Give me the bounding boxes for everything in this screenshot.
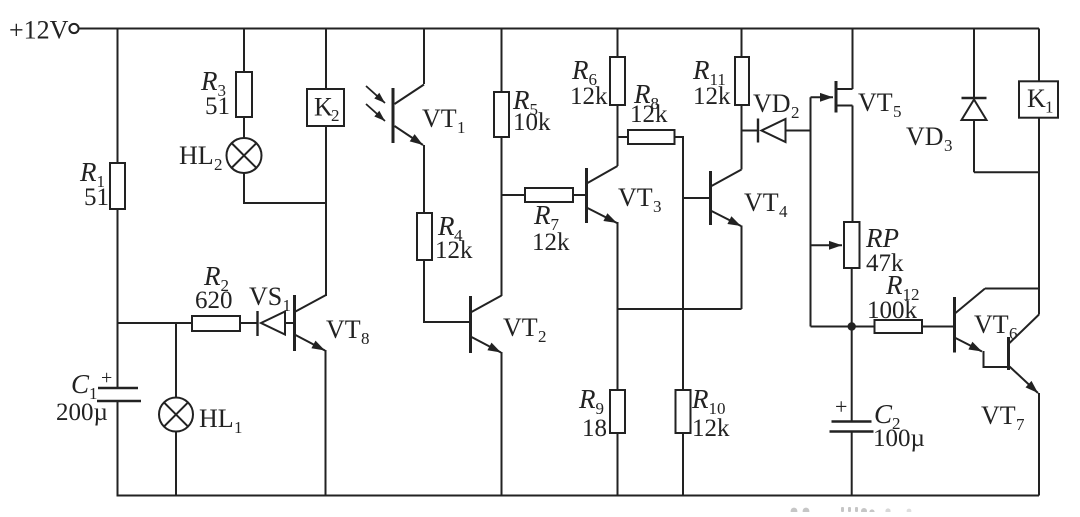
wire VD3 down bbox=[973, 120, 975, 172]
relay K2 bbox=[307, 89, 344, 126]
svg-text:1: 1 bbox=[1045, 98, 1054, 117]
wire VT1 emitter to R4 bbox=[423, 145, 425, 213]
wire bottom rail bbox=[117, 495, 1040, 497]
wire R6 to R8 bbox=[618, 136, 629, 138]
svg-text:VD: VD bbox=[906, 122, 944, 151]
wire C1 down bbox=[117, 401, 119, 496]
svg-text:VT: VT bbox=[744, 188, 779, 217]
svg-text:1: 1 bbox=[457, 118, 466, 137]
wire base bus bbox=[118, 322, 193, 324]
wire junction to C2 bbox=[851, 327, 853, 422]
svg-text:VT: VT bbox=[858, 88, 893, 117]
wire K1 top bbox=[1038, 29, 1040, 82]
wire R2 to VS1 bbox=[240, 322, 257, 324]
transistor VT3 bbox=[585, 168, 588, 223]
wire node to R7 bbox=[502, 194, 526, 196]
resistor R11 bbox=[735, 57, 749, 105]
wire R10 down bbox=[682, 433, 684, 496]
wire VT2 emitter down bbox=[501, 352, 503, 496]
wire R3 to HL2 bbox=[243, 117, 245, 139]
svg-text:12k: 12k bbox=[532, 229, 570, 256]
svg-text:VT: VT bbox=[422, 104, 457, 133]
wire R11 top bbox=[741, 29, 743, 58]
wire gate line bbox=[810, 97, 812, 326]
wire R4 to VT2 base bbox=[424, 260, 470, 322]
wire HL2 to K2 branch bbox=[244, 173, 326, 204]
svg-text:VD: VD bbox=[753, 89, 791, 118]
svg-text:5: 5 bbox=[893, 102, 902, 121]
wire VT3 emitter down bbox=[617, 222, 619, 390]
wire top rail bbox=[78, 28, 1039, 30]
wire VD3 top bbox=[973, 29, 975, 99]
resistor R10 bbox=[676, 390, 691, 433]
svg-text:12k: 12k bbox=[693, 83, 731, 110]
svg-text:R: R bbox=[691, 384, 709, 414]
capacitor C1 bbox=[98, 387, 138, 390]
lamp HL2 bbox=[227, 138, 262, 173]
svg-text:VT: VT bbox=[981, 401, 1016, 430]
wire R8 to R10 column bbox=[675, 137, 684, 390]
fet VT5 bbox=[835, 81, 838, 113]
wire R7 to VT3 base bbox=[573, 194, 586, 196]
wire HL1 top bbox=[175, 323, 177, 398]
wire VT6 emitter to VT7 base bbox=[984, 351, 1008, 367]
wire VD3 to K1 line bbox=[974, 171, 1039, 173]
wire VT4 emitter down bbox=[741, 226, 743, 310]
svg-text:18: 18 bbox=[582, 415, 607, 442]
wire VT7 emitter down bbox=[1038, 393, 1040, 496]
transistor VT7 bbox=[1007, 337, 1010, 370]
svg-text:R: R bbox=[79, 157, 97, 187]
wire R6 top bbox=[617, 29, 619, 58]
resistor R8 bbox=[628, 130, 675, 144]
svg-text:620: 620 bbox=[195, 287, 233, 314]
resistor R12 bbox=[875, 320, 923, 333]
wire R6 to VT3 collector bbox=[617, 105, 619, 166]
svg-text:R: R bbox=[578, 384, 596, 414]
capacitor C2 bbox=[832, 420, 872, 423]
svg-text:R: R bbox=[571, 55, 589, 85]
svg-text:12k: 12k bbox=[692, 415, 730, 442]
diode VD2 bbox=[757, 119, 759, 143]
svg-text:R: R bbox=[885, 270, 903, 300]
svg-text:VT: VT bbox=[974, 310, 1009, 339]
phototransistor VT1 bbox=[392, 88, 395, 143]
svg-text:7: 7 bbox=[1016, 415, 1025, 434]
wire R9 down bbox=[617, 433, 619, 496]
svg-text:VS: VS bbox=[249, 282, 282, 311]
svg-text:12k: 12k bbox=[435, 237, 473, 264]
svg-text:R: R bbox=[533, 200, 551, 230]
transistor VT6 bbox=[953, 297, 956, 353]
svg-text:1: 1 bbox=[283, 296, 292, 315]
wire VT5 source to RP bbox=[852, 106, 854, 223]
svg-text:3: 3 bbox=[944, 136, 953, 155]
svg-text:51: 51 bbox=[205, 93, 230, 120]
diode VD3 bbox=[962, 97, 987, 99]
svg-text:8: 8 bbox=[361, 329, 370, 348]
svg-text:12k: 12k bbox=[630, 101, 668, 128]
svg-text:VT: VT bbox=[618, 183, 653, 212]
wire R3 top bbox=[243, 29, 245, 73]
svg-text:51: 51 bbox=[84, 184, 109, 211]
svg-text:1: 1 bbox=[234, 418, 243, 437]
svg-text:100k: 100k bbox=[867, 297, 918, 324]
svg-text:C: C bbox=[71, 369, 90, 399]
resistor R1 bbox=[110, 163, 125, 209]
zener diode VS1 bbox=[256, 311, 258, 336]
wire VD2 to gate line bbox=[786, 130, 811, 132]
svg-text:100µ: 100µ bbox=[873, 425, 925, 452]
svg-text:R: R bbox=[200, 66, 218, 96]
wire VT1 collector top bbox=[423, 29, 425, 85]
svg-text:+12V: +12V bbox=[9, 16, 69, 45]
wire R12 to VT6 base bbox=[922, 326, 954, 328]
svg-text:VT: VT bbox=[503, 313, 538, 342]
wire emitter bus bbox=[618, 308, 742, 310]
svg-text:2: 2 bbox=[214, 155, 223, 174]
wire junction bus bbox=[811, 326, 875, 328]
relay K1 bbox=[1019, 81, 1058, 117]
wire K2 top bbox=[325, 29, 327, 90]
svg-text:K: K bbox=[1027, 84, 1046, 113]
resistor R6 bbox=[610, 57, 625, 105]
wire K1 down bbox=[1038, 118, 1040, 289]
wire VT4 base branch bbox=[683, 197, 710, 199]
wire VT6 collector bbox=[985, 288, 1039, 290]
transistor VT2 bbox=[469, 296, 472, 353]
svg-text:2: 2 bbox=[538, 327, 547, 346]
node gate junction bbox=[848, 322, 856, 330]
resistor R2 bbox=[192, 316, 240, 331]
wire RP down bbox=[851, 268, 853, 327]
resistor R3 bbox=[236, 72, 252, 117]
potentiometer RP bbox=[844, 222, 860, 268]
svg-text:+: + bbox=[101, 367, 112, 389]
wire K2 to VT8 collector bbox=[325, 126, 327, 296]
svg-text:+: + bbox=[835, 394, 847, 419]
wire node to C1 bbox=[117, 323, 119, 388]
wire HL1 down bbox=[175, 432, 177, 496]
resistor R9 bbox=[610, 390, 625, 433]
resistor R5 bbox=[494, 92, 509, 137]
resistor R4 bbox=[417, 213, 432, 260]
svg-text:12k: 12k bbox=[570, 83, 608, 110]
wire R1 top bbox=[117, 29, 119, 164]
wire VS1 to VT8 base bbox=[285, 322, 294, 324]
wire VT8 emitter down bbox=[325, 350, 327, 496]
wire R11 to VD2 bbox=[742, 130, 758, 132]
svg-text:10k: 10k bbox=[513, 109, 551, 136]
svg-text:VT: VT bbox=[326, 315, 361, 344]
supply terminal bbox=[69, 24, 78, 33]
svg-text:4: 4 bbox=[779, 202, 788, 221]
svg-text:200µ: 200µ bbox=[56, 399, 108, 426]
wire VT5 drain top bbox=[852, 29, 854, 90]
transistor VT8 bbox=[293, 295, 296, 351]
wire R5 to VT2 collector bbox=[501, 137, 503, 296]
wire R5 top bbox=[501, 29, 503, 93]
wire VT7 collector up bbox=[1038, 289, 1040, 315]
svg-text:RP: RP bbox=[865, 223, 899, 253]
lamp HL1 bbox=[159, 398, 193, 432]
wire C2 down bbox=[851, 432, 853, 496]
transistor VT4 bbox=[709, 171, 712, 225]
resistor R7 bbox=[525, 188, 573, 202]
svg-text:2: 2 bbox=[791, 103, 800, 122]
svg-text:HL: HL bbox=[179, 141, 214, 170]
svg-text:2: 2 bbox=[331, 106, 340, 125]
wire R1 to node bbox=[117, 209, 119, 323]
svg-text:HL: HL bbox=[199, 404, 234, 433]
wire R11 to VT4 collector bbox=[741, 105, 743, 170]
svg-text:R: R bbox=[692, 55, 710, 85]
watermark remnant bbox=[791, 507, 912, 515]
svg-text:3: 3 bbox=[653, 197, 662, 216]
